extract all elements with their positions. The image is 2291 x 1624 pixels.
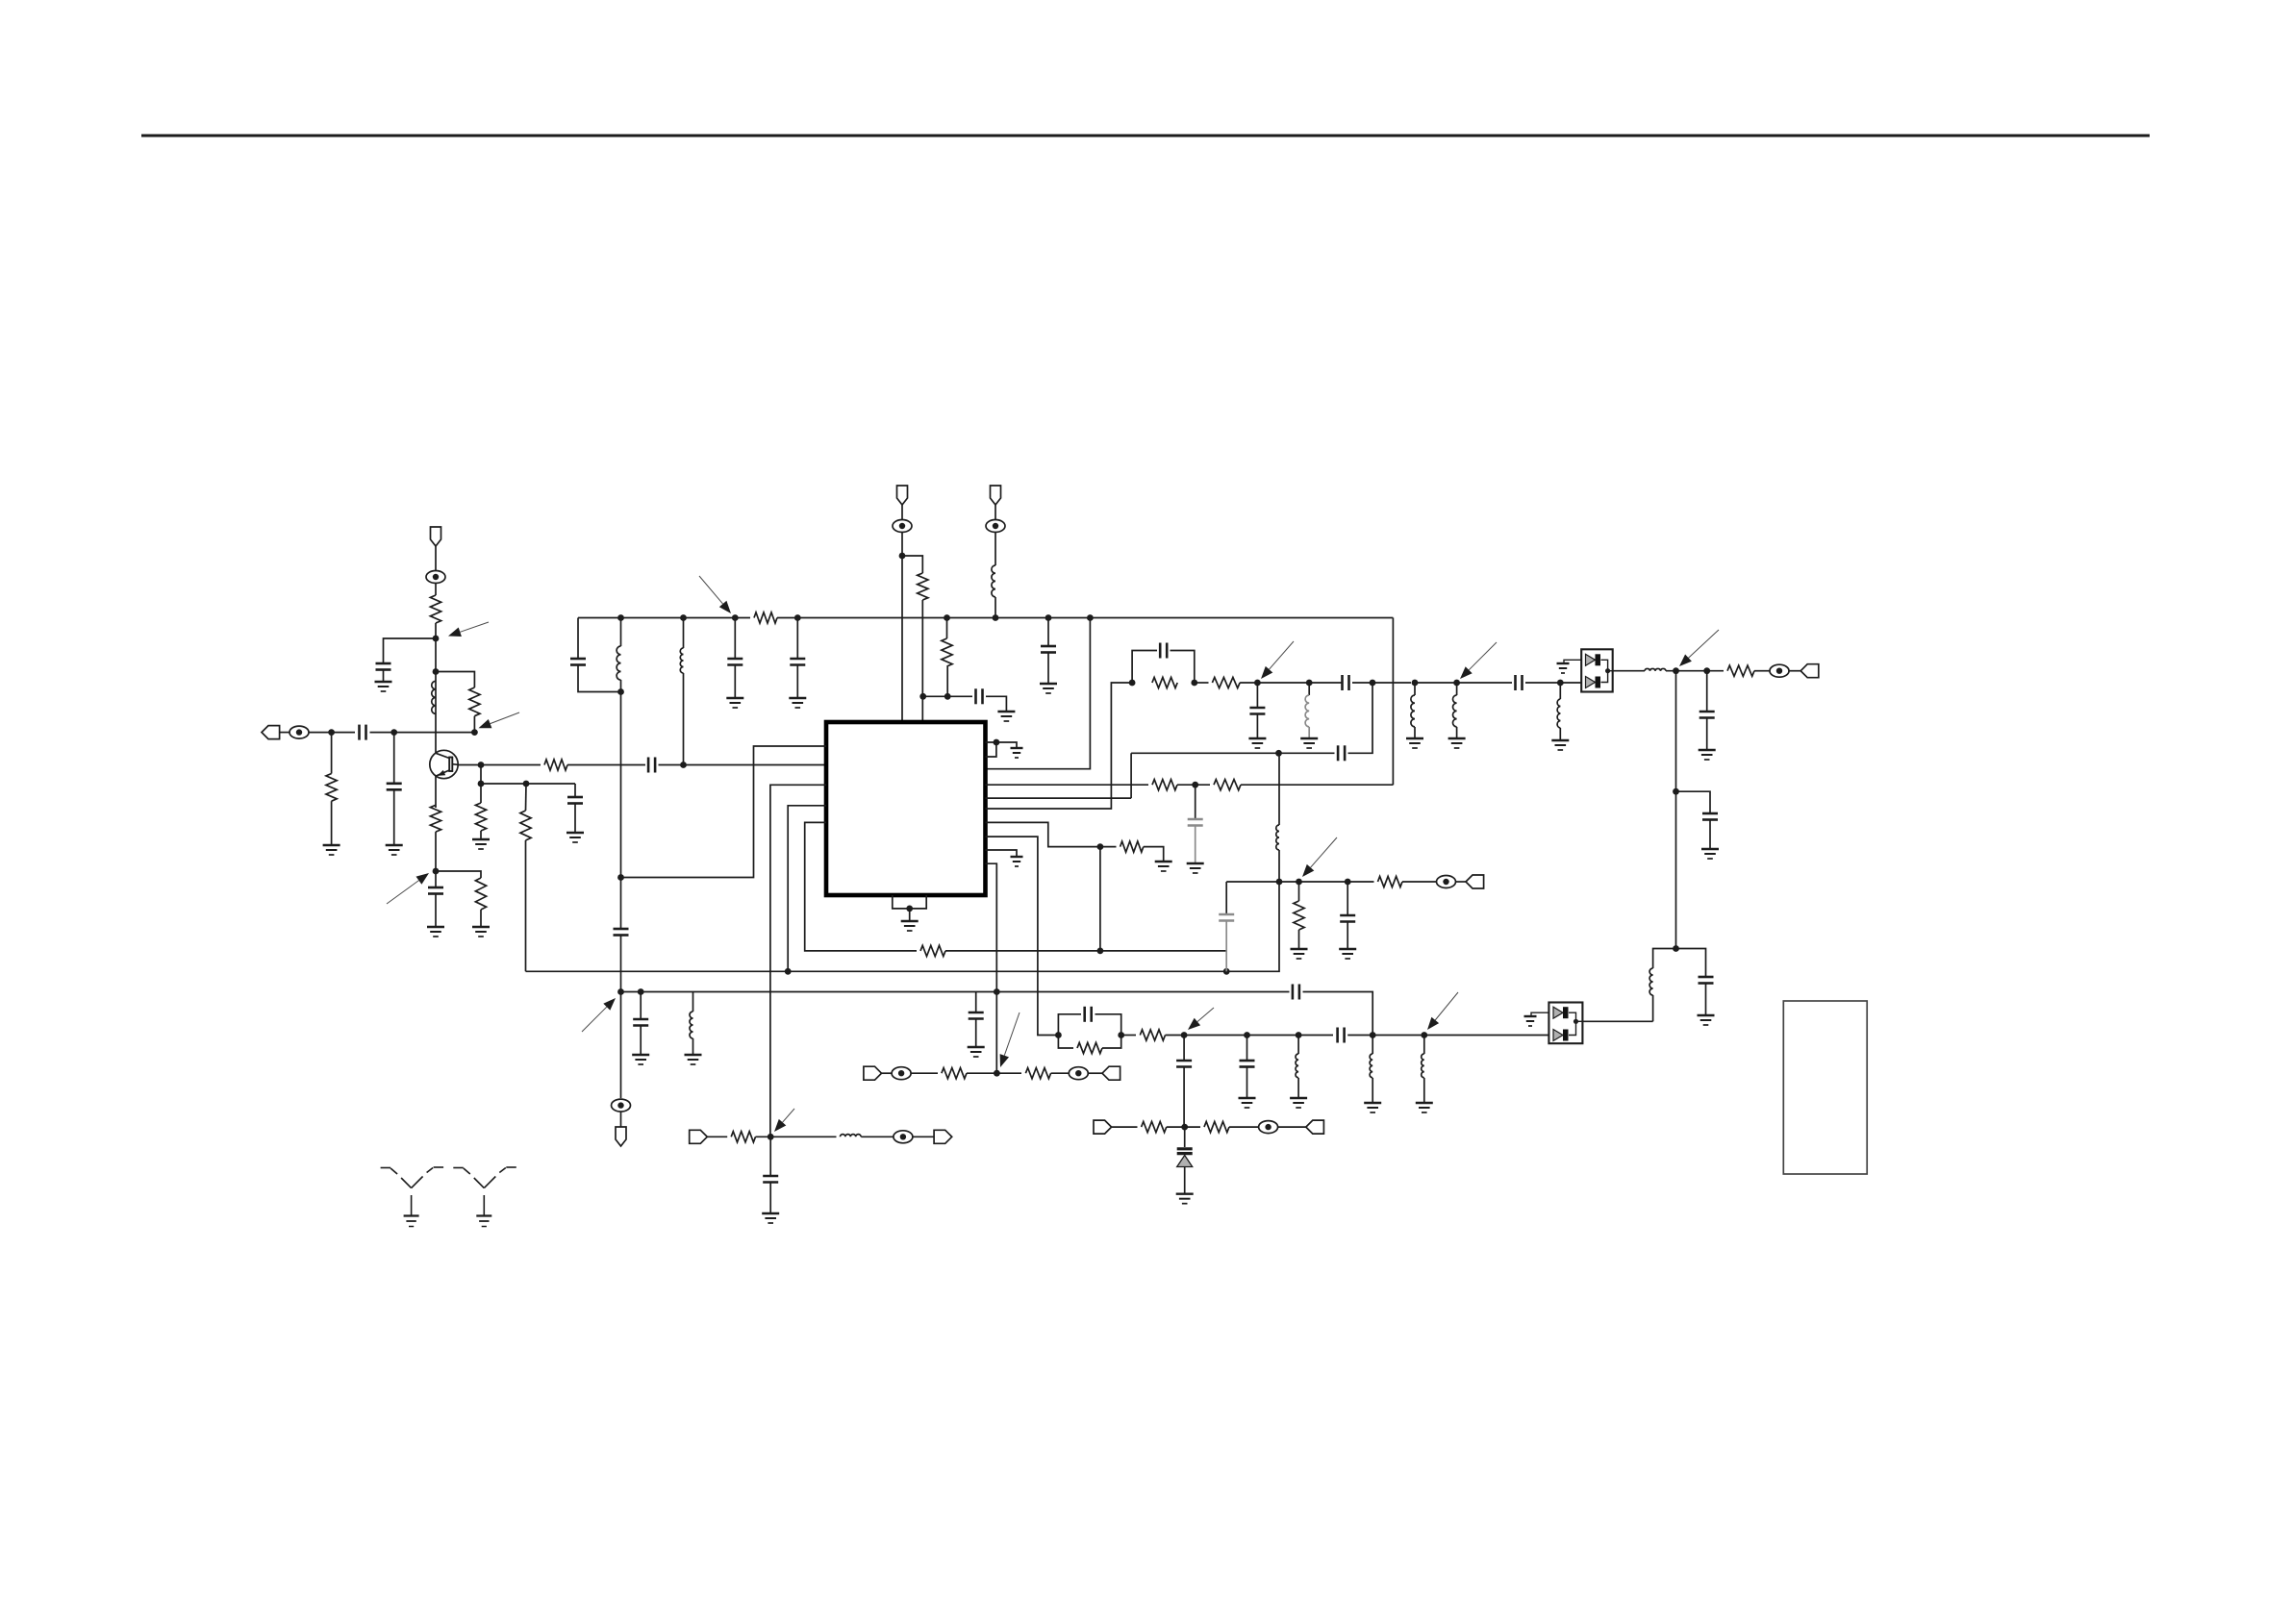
wire	[1298, 882, 1300, 901]
resistor R8	[475, 878, 486, 910]
resistor R24	[920, 945, 945, 956]
junction	[523, 781, 530, 787]
wire	[1246, 1036, 1248, 1061]
wire	[986, 696, 1006, 712]
wire	[994, 597, 996, 618]
connector J7	[1466, 875, 1484, 888]
junction	[906, 906, 913, 912]
wire	[525, 784, 528, 811]
wire	[435, 894, 437, 927]
junction	[1129, 680, 1136, 687]
inductor L14	[1276, 825, 1279, 850]
wire	[1348, 683, 1373, 753]
wire (VCC rail)	[777, 617, 1393, 619]
wire	[435, 545, 437, 572]
wire	[621, 991, 1290, 993]
inductor L16	[1370, 1054, 1372, 1078]
IC U1	[826, 722, 986, 895]
resistor R25	[1378, 876, 1403, 887]
wire	[683, 673, 685, 765]
wire	[1456, 727, 1458, 738]
wire	[481, 783, 575, 785]
ground	[472, 839, 490, 849]
junction	[471, 729, 478, 736]
junction node Q	[617, 874, 624, 881]
junction	[1192, 782, 1198, 788]
wire	[1525, 682, 1581, 684]
test point TP3	[893, 520, 912, 533]
wire	[1456, 683, 1458, 695]
capacitor C1	[360, 725, 366, 740]
ground	[762, 1213, 779, 1223]
wire	[1226, 882, 1279, 971]
connector J2	[1800, 664, 1819, 678]
wire	[1132, 651, 1157, 684]
resistor R9	[754, 612, 777, 623]
junction	[944, 614, 950, 621]
inductor L1	[432, 681, 436, 713]
wire	[788, 806, 826, 972]
wire	[882, 1072, 893, 1074]
ground	[1698, 1015, 1715, 1025]
wire	[1131, 752, 1334, 754]
ground	[1364, 1103, 1381, 1112]
junction	[994, 739, 1000, 746]
wire	[805, 822, 917, 951]
wire	[1240, 682, 1309, 684]
wire	[574, 784, 576, 796]
capacitor C18	[1699, 712, 1715, 718]
inductor L13	[690, 1012, 693, 1038]
test point TP6	[1259, 1121, 1278, 1134]
wire	[525, 840, 527, 971]
wire	[1246, 1067, 1248, 1098]
wire	[986, 618, 1091, 769]
wire (U1 pins to gnd)	[986, 742, 996, 757]
resistor R4	[544, 760, 567, 770]
leader arrow	[1679, 630, 1719, 666]
wire	[383, 670, 385, 682]
capacitor C19	[1702, 813, 1718, 820]
wire	[1095, 1014, 1121, 1036]
ground	[968, 1047, 985, 1057]
resistor R22	[1025, 1068, 1050, 1079]
ground	[1011, 857, 1023, 866]
junction node G	[433, 868, 440, 875]
ground	[1300, 738, 1318, 748]
capacitor C5	[567, 797, 583, 804]
wire	[1241, 784, 1393, 786]
wire	[1559, 728, 1561, 740]
leader arrow	[448, 622, 489, 637]
wire	[975, 1019, 977, 1047]
ground	[1557, 663, 1570, 673]
junction node A	[328, 729, 335, 736]
wire	[946, 666, 948, 696]
junction node M	[1181, 1032, 1188, 1038]
wire	[620, 692, 622, 878]
resistor R2	[430, 595, 441, 623]
wire	[796, 618, 798, 659]
ground	[1448, 738, 1466, 748]
wire	[621, 746, 827, 878]
wire	[1347, 922, 1348, 949]
capacitor C8	[727, 659, 743, 665]
resistor R27	[731, 1132, 755, 1142]
resistor R1	[326, 774, 337, 802]
junction	[1097, 948, 1104, 955]
wire	[280, 732, 290, 734]
inductor L5	[1305, 695, 1309, 727]
junction	[1055, 1032, 1062, 1038]
inductor L3	[680, 648, 683, 673]
capacitor C3	[376, 663, 391, 670]
wire	[620, 878, 622, 929]
wire	[1457, 682, 1512, 684]
wire	[1706, 718, 1708, 750]
resistor R5	[475, 803, 486, 831]
wire	[526, 970, 1227, 972]
resistor R21	[942, 1068, 967, 1079]
wire	[1705, 984, 1707, 1015]
wire	[331, 733, 333, 774]
junction	[732, 614, 739, 621]
junction	[1306, 680, 1313, 687]
wire	[1653, 949, 1676, 969]
resistor R14	[1152, 677, 1177, 687]
wire	[370, 732, 475, 734]
wire	[1608, 670, 1613, 672]
wire	[473, 716, 475, 733]
wire	[1225, 882, 1227, 913]
junction	[994, 988, 1000, 995]
capacitor C31	[763, 1176, 778, 1183]
block (connector outline)	[1783, 1001, 1867, 1174]
ground	[1416, 1103, 1433, 1112]
test point TP9	[612, 1099, 631, 1112]
connector J5	[864, 1066, 882, 1080]
wire	[1423, 1078, 1425, 1103]
capacitor C4	[648, 758, 655, 773]
wire	[435, 776, 437, 808]
junction	[1573, 1019, 1578, 1024]
ground	[1339, 949, 1356, 959]
junction	[1370, 1032, 1376, 1038]
wire	[1309, 682, 1342, 684]
resistor R16	[1727, 665, 1754, 676]
ground	[323, 845, 340, 855]
wire	[309, 732, 355, 734]
wire	[1047, 618, 1049, 646]
inductor L12	[1422, 1054, 1424, 1078]
junction	[1345, 879, 1351, 886]
junction	[993, 614, 999, 621]
wire (U1 gnd tab)	[893, 895, 926, 909]
ground	[1176, 1194, 1194, 1204]
wire	[436, 672, 474, 688]
leader arrow	[387, 873, 429, 904]
junction	[1087, 614, 1094, 621]
capacitor C30	[1340, 915, 1355, 922]
connector J4	[1306, 1120, 1324, 1134]
wire	[620, 618, 622, 647]
wire	[1183, 1036, 1185, 1061]
leader arrow	[699, 576, 731, 613]
inductor L8	[1557, 699, 1560, 728]
wire (F2 internal)	[1569, 1012, 1576, 1035]
capacitor C23	[1240, 1061, 1255, 1067]
wire	[1675, 671, 1677, 949]
resistor R6	[520, 811, 531, 840]
wire	[796, 664, 798, 698]
wire	[986, 683, 1133, 809]
wire	[1372, 1036, 1373, 1055]
capacitor C15	[1249, 708, 1265, 714]
resistor R19	[1142, 1122, 1167, 1133]
leader arrow	[1261, 641, 1294, 679]
junction	[794, 614, 801, 621]
wire	[1088, 1072, 1102, 1074]
ground	[1011, 748, 1023, 758]
shield/case ground symbol	[453, 1167, 516, 1227]
wire	[1308, 683, 1310, 695]
leader arrow	[582, 998, 616, 1032]
wire	[1099, 847, 1101, 951]
connector P4 (output flag)	[616, 1127, 626, 1146]
ground	[386, 845, 403, 855]
wire	[1195, 785, 1196, 818]
ground	[1040, 684, 1057, 693]
junction node K	[1673, 667, 1679, 674]
connector J3	[1094, 1120, 1112, 1134]
wire	[1303, 992, 1373, 1036]
connector J6	[1102, 1066, 1120, 1080]
wire	[435, 623, 437, 754]
junction node T	[768, 1134, 774, 1140]
junction	[680, 614, 687, 621]
wire	[996, 742, 1017, 748]
ground	[901, 921, 919, 931]
wire	[707, 1136, 727, 1137]
leader arrow	[1000, 1012, 1020, 1067]
filter F2	[1548, 1003, 1582, 1044]
wire	[480, 765, 482, 804]
capacitor C17	[1516, 675, 1523, 690]
wire	[756, 1136, 837, 1137]
test point TP7	[892, 1067, 911, 1080]
wire	[692, 1038, 694, 1055]
resistor R23	[1120, 841, 1144, 852]
wire	[1297, 1078, 1299, 1098]
wire	[921, 600, 923, 722]
wire	[567, 764, 645, 766]
junction	[1118, 1032, 1124, 1038]
wire	[620, 680, 622, 692]
wire	[1058, 1014, 1081, 1036]
junction node H	[617, 688, 624, 695]
wire	[393, 790, 395, 845]
test point TP10	[1437, 876, 1456, 888]
wire	[1308, 727, 1310, 738]
junction	[1045, 614, 1052, 621]
inductor L6	[1411, 695, 1415, 727]
capacitor C14	[1160, 643, 1167, 659]
junction	[1412, 680, 1419, 687]
wire	[578, 665, 620, 692]
junction	[899, 553, 906, 560]
junction	[944, 693, 951, 700]
wire	[1051, 1072, 1070, 1074]
capacitor C26	[633, 1019, 648, 1026]
wire	[659, 764, 827, 766]
resistor R3	[469, 687, 480, 716]
wire	[1278, 1126, 1306, 1128]
capacitor C20	[1699, 977, 1714, 984]
wire	[1676, 791, 1711, 812]
wire	[1414, 683, 1416, 695]
ground	[1701, 849, 1719, 859]
wire	[1559, 683, 1561, 699]
wire	[994, 505, 996, 520]
junction node O	[1181, 1124, 1188, 1131]
wire	[1058, 1036, 1073, 1049]
wire	[435, 832, 437, 887]
wire	[909, 909, 911, 921]
ground	[1187, 863, 1204, 873]
wire	[1166, 1035, 1334, 1037]
test point TP4	[986, 520, 1005, 533]
connector P2 (supply flag)	[897, 486, 908, 505]
ground	[1290, 1098, 1307, 1108]
ground	[566, 833, 584, 842]
junction	[1191, 680, 1197, 687]
wire	[1582, 1020, 1652, 1022]
ground	[1524, 1016, 1537, 1026]
connector P1 (supply flag)	[431, 527, 441, 546]
wire	[384, 638, 437, 662]
varactor D5	[1177, 1127, 1193, 1194]
wire	[393, 733, 395, 783]
wire	[1666, 670, 1724, 672]
test point TP1	[290, 726, 309, 738]
junction	[1605, 668, 1610, 673]
junction	[1275, 750, 1282, 757]
junction node R	[617, 988, 624, 995]
wire	[1456, 881, 1467, 883]
ground	[1155, 862, 1172, 871]
resistor R10	[942, 638, 952, 666]
wire	[683, 618, 685, 649]
wire	[620, 1112, 622, 1127]
ground	[1406, 738, 1423, 748]
wire	[975, 992, 977, 1012]
ground	[427, 927, 444, 937]
wire	[901, 533, 903, 723]
leader arrow	[1460, 642, 1497, 679]
wire	[861, 1136, 894, 1137]
wire	[1121, 1035, 1136, 1037]
wire	[1102, 1036, 1121, 1049]
diode D1	[1586, 654, 1601, 665]
junction	[1557, 680, 1564, 687]
test point TP5	[1770, 664, 1789, 677]
capacitor C25	[614, 929, 629, 936]
resistor R15	[1212, 677, 1240, 687]
junction	[1097, 843, 1104, 850]
wire	[946, 618, 948, 639]
resistor R20	[1204, 1122, 1229, 1133]
connector P3 (supply flag)	[991, 486, 1001, 505]
wire	[1171, 651, 1195, 684]
filter F1	[1581, 649, 1613, 691]
ground	[1239, 1098, 1256, 1108]
wire	[1278, 753, 1280, 825]
wire	[1789, 670, 1800, 672]
capacitor C22	[1338, 1028, 1345, 1043]
test point TP11	[894, 1131, 913, 1143]
wire	[1256, 683, 1258, 707]
junction node I	[1254, 680, 1261, 687]
connector J9	[934, 1130, 952, 1143]
wire	[967, 1072, 1021, 1074]
ground	[789, 698, 806, 708]
wire	[1112, 1126, 1138, 1128]
junction node J	[1453, 680, 1460, 687]
wire	[436, 871, 481, 878]
top rule line	[141, 135, 2150, 137]
junction node S	[1296, 879, 1302, 886]
junction	[785, 968, 792, 975]
inductor L9	[1645, 668, 1666, 670]
resistor R7	[430, 805, 441, 832]
wire	[1392, 618, 1394, 786]
wire (U1 pin to mixer2)	[986, 837, 1059, 1035]
wire (U1 pin down)	[986, 863, 997, 1073]
transistor Q1	[430, 750, 458, 778]
junction	[1703, 667, 1710, 674]
leader arrow	[774, 1109, 794, 1132]
wire	[1414, 727, 1416, 738]
wire	[1676, 949, 1706, 977]
resistor R13	[1214, 780, 1241, 790]
connector J8	[690, 1130, 708, 1143]
leader arrow	[479, 712, 520, 728]
wire	[945, 950, 1226, 952]
wire	[770, 785, 826, 1137]
ground	[1291, 949, 1308, 959]
junction	[1244, 1032, 1250, 1038]
junction node C	[433, 636, 440, 642]
capacitor C27	[969, 1012, 984, 1019]
wire	[986, 784, 1149, 786]
wire	[1256, 714, 1258, 738]
resistor R18	[1140, 1030, 1165, 1040]
wire	[911, 1072, 938, 1074]
wire	[734, 664, 736, 698]
wire	[1347, 882, 1348, 914]
ground	[726, 698, 743, 708]
junction	[478, 781, 485, 787]
inductor L15	[841, 1135, 862, 1137]
ground	[632, 1055, 649, 1064]
wire	[574, 804, 576, 833]
wire	[640, 1026, 642, 1055]
wire	[1709, 820, 1711, 849]
junction node L	[1673, 945, 1679, 952]
wire	[1652, 995, 1654, 1021]
wire	[1278, 850, 1280, 882]
wire	[1229, 1126, 1259, 1128]
